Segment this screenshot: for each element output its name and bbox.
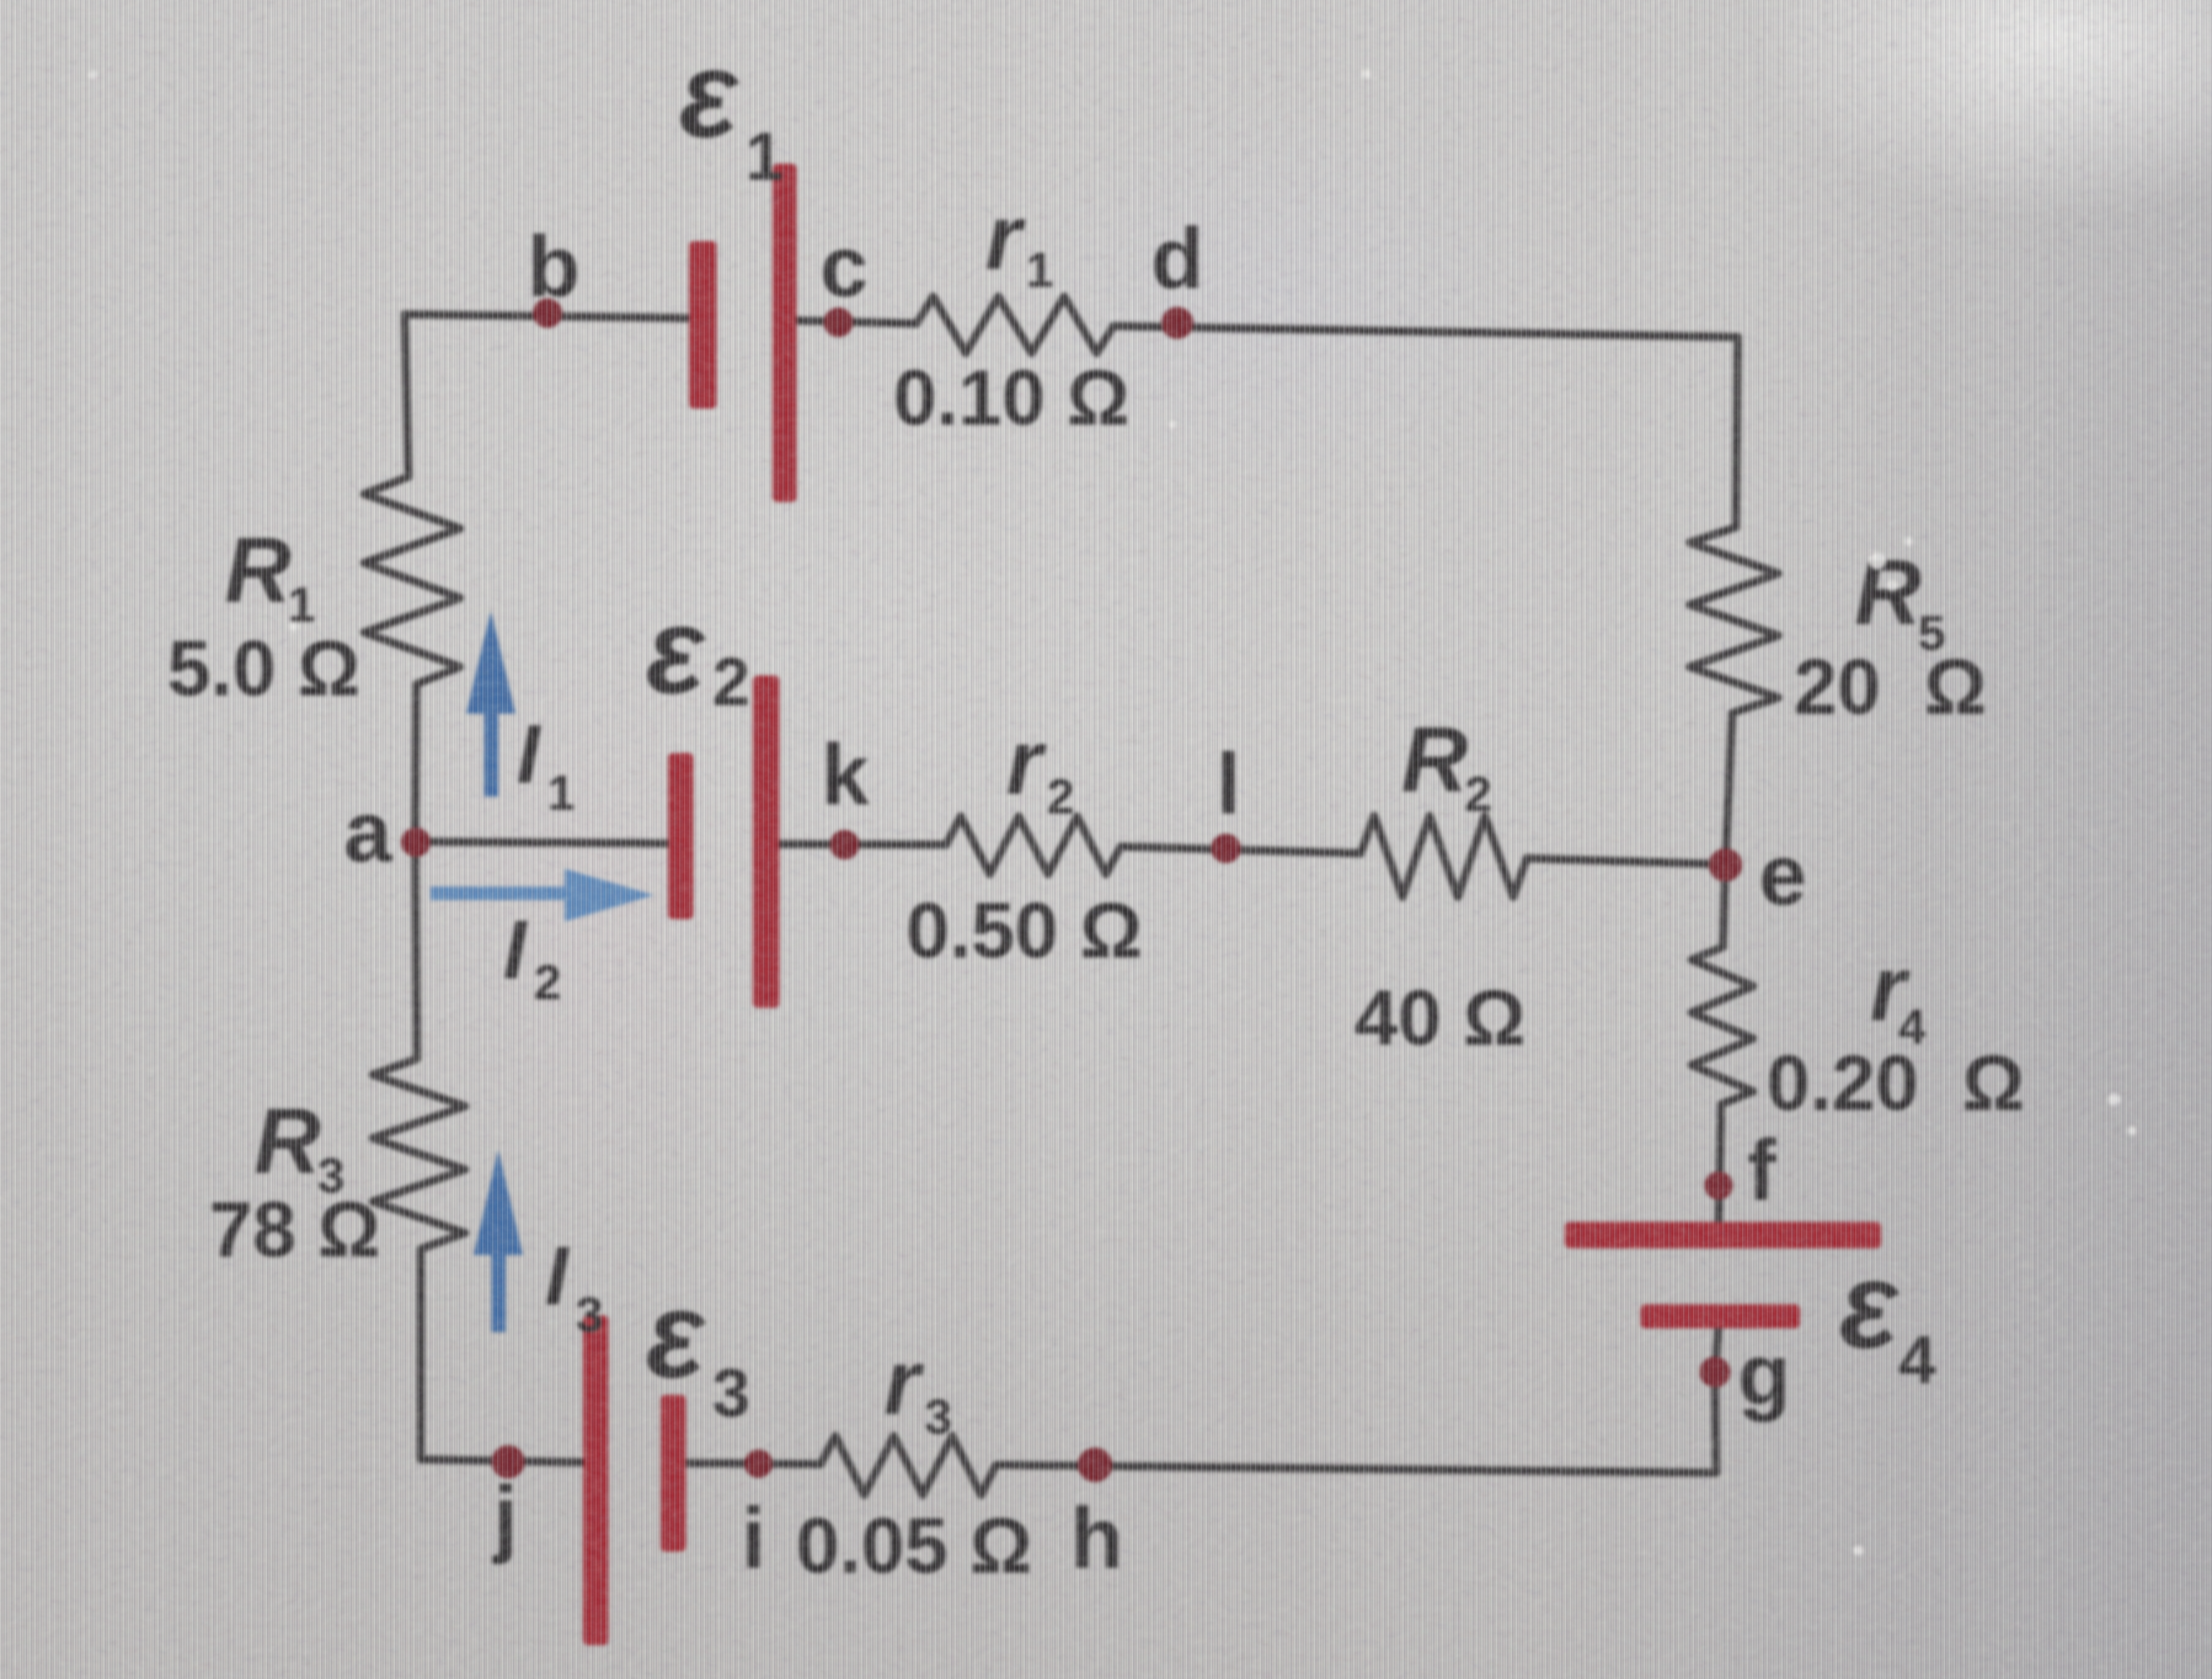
node l <box>1211 834 1241 863</box>
node f <box>1705 1171 1733 1200</box>
wire node e to r4 <box>1723 864 1725 947</box>
resistor r4 <box>1692 947 1753 1104</box>
node d <box>1161 307 1193 339</box>
current arrow I3 <box>474 1150 523 1332</box>
wire bottom-right corner up to node g <box>1715 1324 1719 1473</box>
resistor R1 <box>364 477 460 684</box>
wire node a to R3 <box>415 842 417 1059</box>
node g <box>1700 1357 1730 1387</box>
battery E1 short plate <box>689 241 717 409</box>
wire battery e2 to r2 via node k <box>779 844 946 845</box>
wire r2 to R2 via node l <box>1121 847 1361 853</box>
battery E4 short plate <box>1641 1304 1800 1328</box>
wire top-left horizontal b segment <box>405 314 689 318</box>
node j <box>491 1445 525 1478</box>
node c <box>824 308 853 337</box>
wire R5 to node e <box>1725 713 1732 864</box>
resistor r3 <box>821 1436 996 1495</box>
battery E2 long plate <box>753 676 779 1008</box>
resistor R2 <box>1361 816 1527 897</box>
wire bottom-left to battery e3 <box>421 1459 583 1462</box>
resistor R5 <box>1690 527 1778 713</box>
wire R3 to bottom-left corner <box>417 1249 425 1459</box>
wire battery-e1 to c <box>797 321 917 324</box>
wire battery e3 to node i <box>686 1463 821 1464</box>
node b <box>533 298 562 328</box>
battery E1 long plate <box>773 164 797 502</box>
wire node a to battery e2 <box>415 842 668 843</box>
current arrow I1 <box>466 611 515 797</box>
wire d to top-right corner <box>1113 326 1738 337</box>
battery E3 long plate <box>583 1315 608 1645</box>
resistor r2 <box>946 816 1121 874</box>
wire R1 to node a <box>415 684 416 842</box>
wire node h to bottom-right corner <box>996 1465 1716 1473</box>
battery E4 long plate <box>1565 1222 1881 1248</box>
node k <box>830 830 859 859</box>
wire R2 to node e <box>1527 858 1725 864</box>
wire left vertical top <box>405 314 408 477</box>
battery E3 short plate <box>661 1395 686 1552</box>
node h <box>1078 1448 1112 1482</box>
resistor R3 <box>373 1059 465 1249</box>
wire r4 to battery e4 via node f <box>1719 1104 1721 1224</box>
node i <box>744 1450 773 1478</box>
node e <box>1709 848 1742 882</box>
wire top-right corner down <box>1736 337 1738 527</box>
battery E2 short plate <box>668 753 693 919</box>
resistor r1 <box>917 297 1113 353</box>
node a <box>401 828 431 857</box>
current arrow I2 <box>431 869 654 922</box>
